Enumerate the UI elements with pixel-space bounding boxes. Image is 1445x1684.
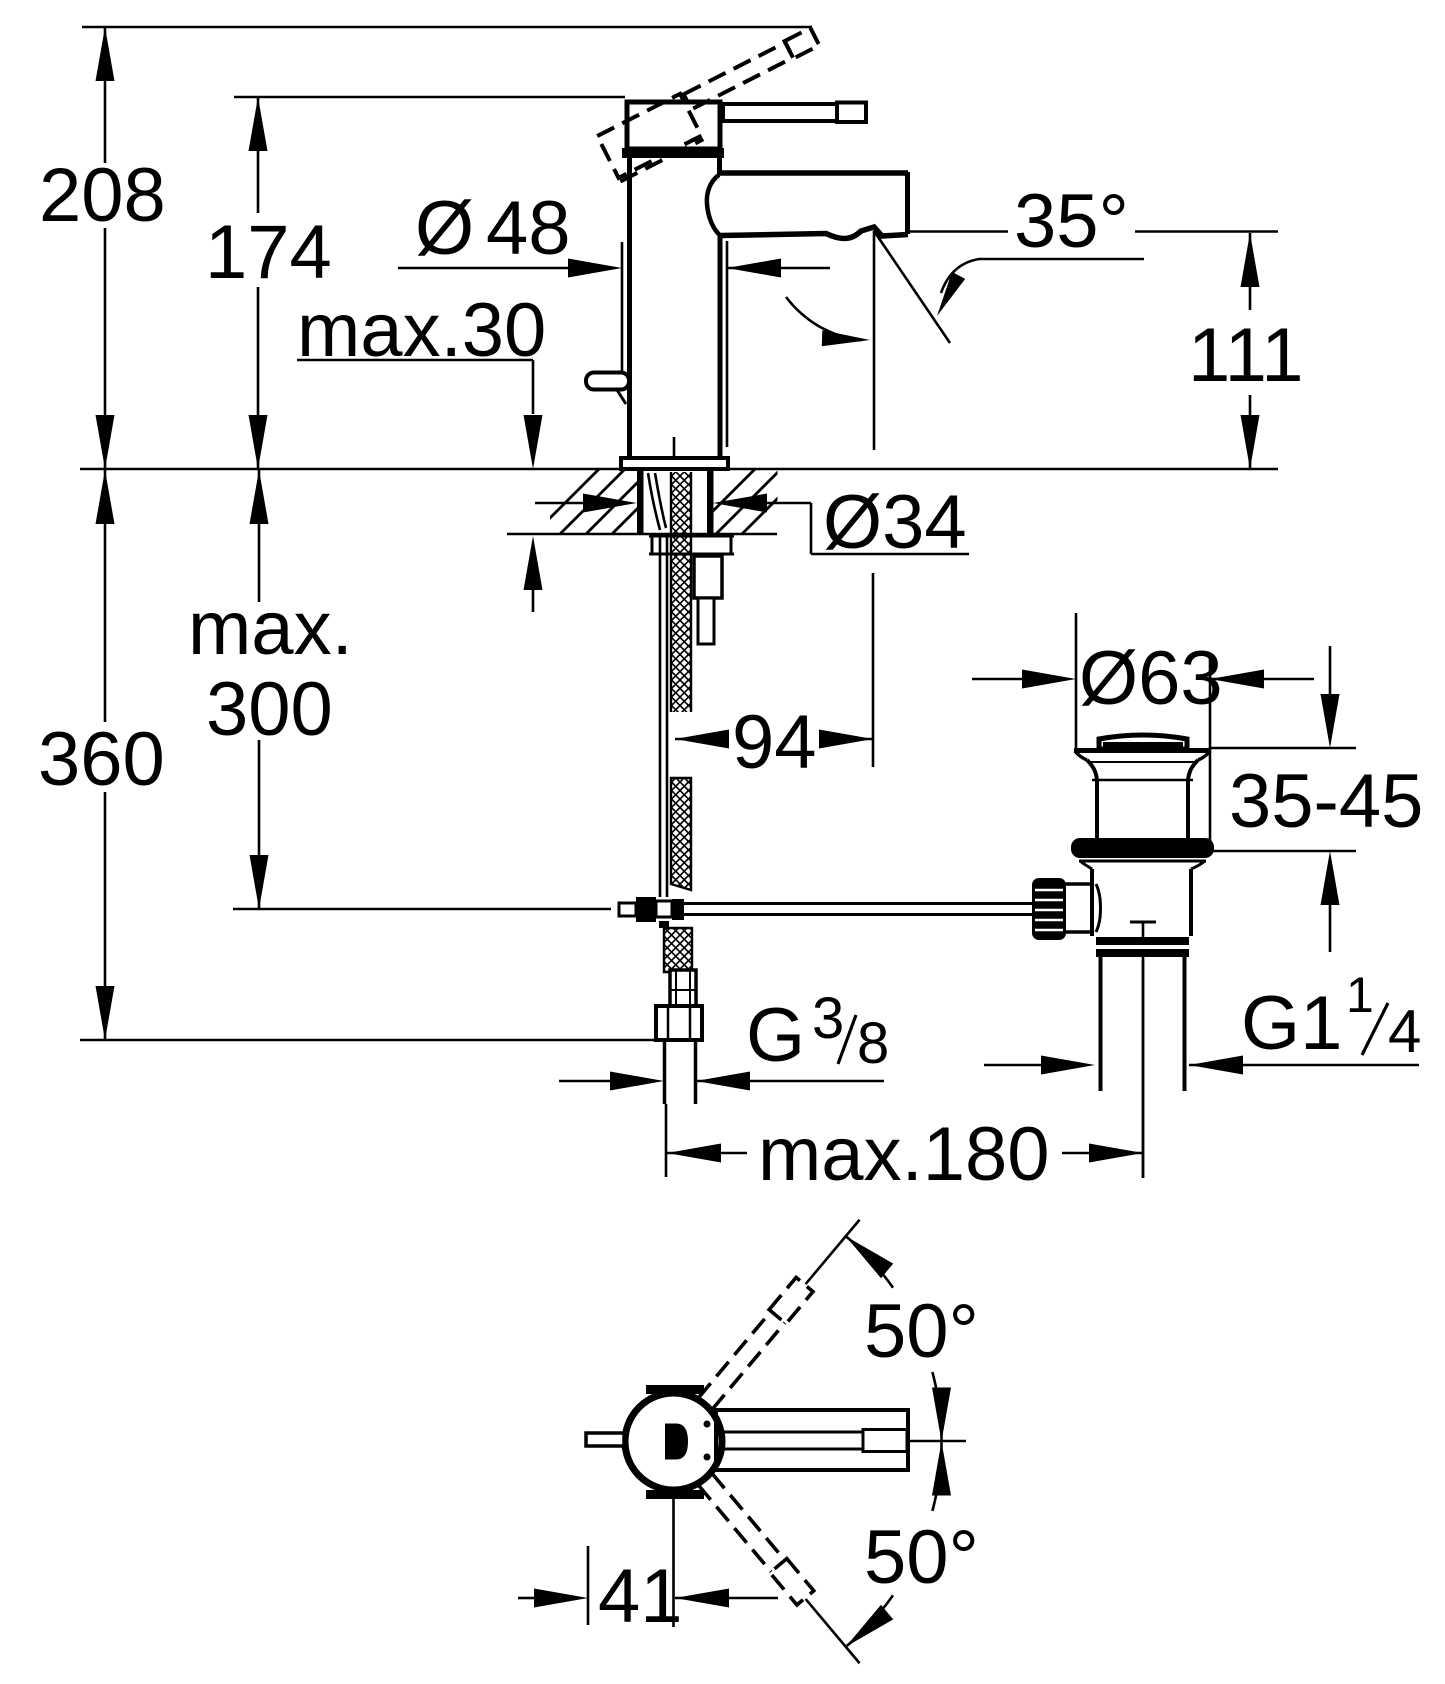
flex hose upper band	[671, 472, 691, 712]
svg-text:35-45: 35-45	[1229, 759, 1423, 844]
top view centerline bottom	[672, 1496, 675, 1627]
dimension 360 bottom reference line	[80, 1039, 658, 1042]
top view pull rod knob	[586, 1433, 624, 1446]
deck bottom surface line	[507, 533, 777, 536]
svg-text:G1: G1	[1241, 981, 1342, 1066]
dimension 35-45 lower	[1211, 850, 1356, 853]
drain o-ring washer	[1071, 838, 1214, 858]
top view body circle	[625, 1393, 722, 1490]
shank wall right	[707, 469, 714, 534]
svg-text:208: 208	[39, 153, 166, 238]
svg-text:94: 94	[732, 700, 817, 785]
dimension 360 vertical line	[104, 469, 107, 722]
svg-text:3: 3	[812, 986, 844, 1051]
dimension 360 arrows	[96, 470, 115, 524]
drain under flange	[1079, 860, 1206, 863]
dimension max.30 arrows	[524, 415, 543, 469]
svg-text:48: 48	[486, 186, 571, 271]
lever rod	[723, 104, 837, 121]
dimension dia63 arrows	[972, 678, 1030, 681]
pull rod knob	[586, 373, 629, 390]
svg-text:Ø63: Ø63	[1079, 636, 1223, 721]
svg-text:Ø: Ø	[415, 186, 474, 271]
spout bottom edge with aerator break	[721, 227, 908, 239]
35 degree vertical reference line	[873, 231, 876, 450]
spout nose arc	[707, 175, 721, 236]
dimension 111 vertical line	[1249, 233, 1252, 310]
mounting nut	[649, 535, 734, 538]
dimension dia48 extension lines	[621, 242, 624, 372]
dimension 111 arrows	[1241, 233, 1260, 287]
lever end cap	[837, 103, 866, 123]
svg-text:35°: 35°	[1014, 179, 1129, 264]
dimension max.300 vertical line	[258, 470, 261, 602]
top view screw dots	[704, 1421, 711, 1428]
drain flange top	[1074, 748, 1211, 753]
svg-text:G: G	[746, 993, 805, 1078]
extension line top of handle y97	[234, 96, 625, 99]
top view cartridge D mark	[665, 1424, 688, 1460]
lower 50 arc piece2	[846, 1595, 893, 1647]
top view centerline right	[908, 1440, 966, 1443]
extension line spout outlet level y231	[908, 230, 1008, 233]
drain knurled knob	[1032, 878, 1066, 940]
hex nut	[656, 1006, 702, 1040]
deck top surface line	[80, 468, 1278, 471]
dimension dia63 extension lines	[1075, 613, 1078, 750]
svg-text:174: 174	[205, 210, 332, 295]
svg-text:4: 4	[1388, 998, 1421, 1065]
dimension dia48 arrows	[398, 267, 575, 270]
spout right edge	[905, 172, 910, 234]
dimension 94 arrows	[675, 730, 729, 749]
svg-text:50°: 50°	[864, 1289, 979, 1374]
top view lever inner lines	[721, 1431, 863, 1434]
drain plug stem	[1142, 922, 1145, 1178]
svg-text:360: 360	[38, 717, 165, 802]
pull rod inside body	[673, 437, 676, 459]
svg-text:300: 300	[206, 667, 333, 752]
handle joint bar	[622, 148, 724, 158]
horizontal pop-up rod	[684, 902, 1032, 905]
dimension max.30 leader	[297, 359, 533, 362]
supply pipe	[663, 1040, 667, 1104]
drain knob shaft	[1064, 882, 1092, 886]
35 degree inclined line	[874, 231, 950, 343]
svg-text:1: 1	[1346, 967, 1374, 1023]
top view dashed lever upper	[697, 1277, 813, 1410]
35 degree arc	[786, 297, 862, 340]
dimension max.180 arrows	[667, 1144, 721, 1163]
dimension 208 vertical line	[104, 27, 107, 163]
body right wall lower	[718, 236, 723, 458]
lower 50 arc piece1	[932, 1442, 941, 1511]
base plate	[621, 458, 728, 469]
dimension 208 arrows	[96, 27, 115, 81]
pull rod curve in shank	[648, 473, 660, 530]
drain push button	[1099, 735, 1187, 749]
hose connector	[670, 970, 696, 1006]
dimension 35-45 upper	[1329, 646, 1332, 700]
dimension dia34 arrows	[583, 494, 637, 513]
upper 50 arc piece1	[846, 1236, 893, 1288]
dimension max.300 bottom reference line	[233, 908, 611, 911]
upper 50 arc piece2	[932, 1372, 941, 1441]
svg-text:50°: 50°	[864, 1515, 979, 1600]
svg-text:max.180: max.180	[758, 1112, 1050, 1197]
radial line lower 50 deg	[806, 1599, 860, 1663]
flex hose middle band	[671, 778, 691, 890]
handle base	[627, 102, 720, 149]
35 degree leader	[979, 258, 1144, 261]
dimension 174 arrows	[249, 97, 268, 151]
radial line upper 50 deg	[806, 1220, 860, 1284]
dimension 41 extension line	[587, 1546, 590, 1625]
body right wall upper	[717, 158, 722, 174]
svg-text:8: 8	[857, 1011, 889, 1076]
drain neck	[1087, 760, 1097, 838]
dimension 41 arrows	[518, 1597, 534, 1600]
svg-text:41: 41	[598, 1554, 683, 1639]
top view dashed lever lower	[697, 1472, 813, 1605]
dimension G 3/8 arrows	[559, 1080, 615, 1083]
dashed lifted handle	[597, 28, 833, 182]
pull rod below deck	[659, 534, 662, 897]
svg-text:max.: max.	[188, 586, 353, 671]
dimension max.180 extension lines	[665, 1104, 668, 1177]
drain tailpiece walls	[1099, 957, 1103, 1091]
rod guide lower	[698, 598, 714, 644]
top view handle base flats	[646, 1385, 704, 1394]
flex hose lower band	[664, 928, 692, 972]
deck hatching right	[690, 469, 807, 534]
dimension G1 1/4 arrows	[984, 1064, 1048, 1067]
spout top edge	[717, 170, 908, 176]
dimension 174 vertical line	[257, 97, 260, 213]
drain coupling	[1096, 937, 1189, 957]
dimension dia34 lines	[535, 502, 585, 505]
svg-text:Ø34: Ø34	[823, 480, 967, 565]
body left wall	[627, 158, 632, 458]
dimension max.300 arrows	[250, 470, 269, 524]
shank wall left	[637, 469, 644, 534]
svg-text:111: 111	[1188, 313, 1304, 398]
extension line top of lifted handle y27	[82, 26, 812, 29]
dimension 94 extension line	[872, 573, 875, 767]
pop-up rod pivot block	[619, 903, 636, 916]
top view lever outline	[716, 1410, 908, 1470]
drain body walls	[1090, 869, 1094, 936]
deck hatching left	[534, 469, 677, 534]
rod guide upper	[694, 556, 722, 598]
